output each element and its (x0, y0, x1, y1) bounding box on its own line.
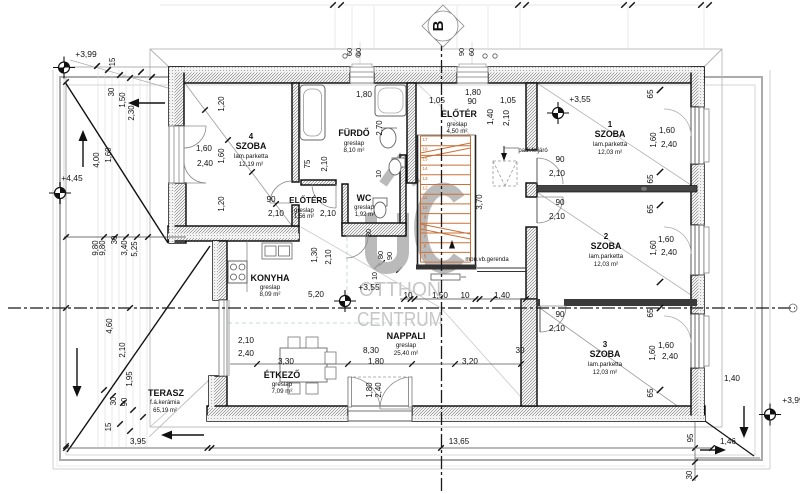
svg-text:2,10: 2,10 (549, 212, 565, 221)
svg-text:12,03 m²: 12,03 m² (598, 149, 622, 156)
svg-text:3,70: 3,70 (475, 194, 484, 210)
svg-text:10: 10 (376, 170, 383, 178)
svg-text:1,56 m²: 1,56 m² (294, 214, 314, 220)
svg-text:1,50: 1,50 (118, 92, 127, 108)
svg-text:SZOBA: SZOBA (236, 141, 267, 151)
svg-text:greslap: greslap (344, 140, 365, 147)
svg-text:1,20: 1,20 (217, 196, 226, 212)
svg-text:15: 15 (422, 156, 428, 161)
svg-text:7: 7 (424, 234, 427, 239)
svg-text:12,03 m²: 12,03 m² (593, 369, 617, 376)
svg-text:2,40: 2,40 (662, 352, 678, 361)
svg-text:NAPPALI: NAPPALI (387, 331, 426, 341)
svg-text:1,05: 1,05 (500, 96, 516, 105)
svg-text:4,00: 4,00 (92, 152, 101, 168)
svg-text:1,46: 1,46 (720, 437, 736, 446)
svg-text:3,20: 3,20 (462, 357, 478, 366)
svg-text:1,05: 1,05 (429, 96, 445, 105)
svg-text:30: 30 (685, 470, 694, 479)
svg-text:lam.parketta: lam.parketta (589, 253, 624, 260)
svg-text:ELŐTÉR: ELŐTÉR (441, 108, 477, 119)
svg-text:30: 30 (110, 235, 119, 244)
svg-text:lam.parketta: lam.parketta (593, 141, 628, 148)
svg-text:60: 60 (467, 48, 476, 56)
svg-text:12,19 m²: 12,19 m² (239, 161, 263, 168)
svg-text:+3,99: +3,99 (75, 49, 97, 59)
svg-text:10: 10 (372, 272, 379, 280)
svg-text:2,10: 2,10 (320, 156, 329, 172)
svg-text:2,10: 2,10 (268, 209, 284, 218)
svg-text:2,40: 2,40 (661, 140, 677, 149)
svg-text:2,70: 2,70 (375, 120, 384, 136)
svg-text:11: 11 (423, 195, 428, 200)
svg-text:14: 14 (422, 166, 428, 171)
svg-text:4,50 m²: 4,50 m² (447, 128, 468, 135)
svg-text:SZOBA: SZOBA (595, 129, 626, 139)
svg-text:12: 12 (422, 186, 428, 191)
svg-text:15: 15 (108, 57, 117, 66)
svg-text:+3,55: +3,55 (569, 94, 591, 104)
svg-text:2,40: 2,40 (374, 382, 383, 398)
svg-text:90: 90 (266, 195, 276, 204)
svg-text:1,60: 1,60 (658, 341, 674, 350)
svg-text:3,40: 3,40 (120, 240, 129, 256)
svg-text:1,80: 1,80 (365, 382, 374, 398)
svg-text:2,30: 2,30 (127, 105, 136, 121)
svg-text:90: 90 (555, 310, 565, 319)
svg-text:30: 30 (364, 229, 373, 237)
svg-text:6: 6 (424, 244, 427, 249)
svg-text:ELŐTÉR5: ELŐTÉR5 (289, 194, 327, 205)
svg-text:1,80: 1,80 (356, 90, 372, 99)
svg-text:13,65: 13,65 (449, 437, 470, 446)
svg-text:65: 65 (646, 308, 655, 318)
svg-text:greslap: greslap (447, 121, 468, 128)
svg-text:2,40: 2,40 (661, 248, 677, 257)
svg-text:16: 16 (422, 147, 428, 152)
svg-text:FÜRDŐ: FÜRDŐ (338, 127, 369, 138)
svg-text:ÉTKEZŐ: ÉTKEZŐ (264, 369, 301, 380)
svg-text:60: 60 (345, 48, 354, 56)
svg-text:8: 8 (424, 224, 427, 229)
svg-text:9,80: 9,80 (98, 240, 107, 256)
svg-text:3,95: 3,95 (130, 437, 146, 446)
svg-text:10: 10 (422, 205, 428, 210)
svg-text:1,50: 1,50 (432, 291, 448, 300)
svg-text:1,40: 1,40 (494, 291, 510, 300)
svg-text:padl.feljáró: padl.feljáró (518, 148, 548, 154)
svg-text:2,10: 2,10 (549, 324, 565, 333)
svg-text:WC: WC (357, 193, 372, 203)
svg-text:CENTRUM: CENTRUM (357, 309, 443, 331)
svg-text:90: 90 (555, 155, 565, 164)
svg-text:1,60: 1,60 (649, 132, 658, 148)
svg-text:65: 65 (646, 204, 655, 214)
svg-text:1,60: 1,60 (196, 144, 212, 153)
svg-text:30: 30 (515, 346, 525, 355)
svg-text:65: 65 (646, 388, 655, 398)
svg-text:8,30: 8,30 (363, 346, 379, 355)
svg-text:lam.parketta: lam.parketta (234, 153, 269, 160)
svg-text:1,92 m²: 1,92 m² (355, 212, 375, 218)
svg-text:B: B (430, 20, 447, 31)
svg-text:7,09 m²: 7,09 m² (272, 388, 293, 395)
svg-text:+3,55: +3,55 (358, 282, 380, 292)
svg-text:2,10: 2,10 (238, 336, 254, 345)
svg-text:65: 65 (646, 89, 655, 99)
svg-text:1,80: 1,80 (465, 88, 481, 97)
svg-text:1,60: 1,60 (217, 148, 226, 164)
svg-text:5,20: 5,20 (308, 290, 324, 299)
svg-text:+3,99: +3,99 (782, 395, 800, 405)
svg-text:2,10: 2,10 (320, 209, 336, 218)
svg-text:8,10 m²: 8,10 m² (344, 147, 365, 154)
svg-text:65: 65 (646, 174, 655, 184)
svg-text:SZOBA: SZOBA (590, 349, 621, 359)
svg-text:9: 9 (424, 215, 427, 220)
svg-text:12,03 m²: 12,03 m² (594, 261, 618, 268)
svg-text:1,60: 1,60 (104, 147, 113, 163)
svg-text:+4,45: +4,45 (61, 173, 83, 183)
svg-text:2,10: 2,10 (549, 169, 565, 178)
svg-text:2,40: 2,40 (238, 349, 254, 358)
svg-text:5,25: 5,25 (130, 241, 139, 257)
svg-text:90: 90 (385, 252, 394, 260)
svg-text:13: 13 (422, 176, 428, 181)
svg-text:greslap: greslap (272, 381, 293, 388)
svg-text:30: 30 (107, 87, 116, 96)
svg-text:95: 95 (686, 433, 695, 442)
svg-text:greslap: greslap (396, 342, 417, 349)
svg-text:2,10: 2,10 (118, 342, 127, 358)
svg-text:1,40: 1,40 (724, 374, 740, 383)
svg-text:greslap: greslap (260, 284, 281, 291)
svg-text:2: 2 (604, 232, 609, 241)
svg-text:1,95: 1,95 (125, 371, 134, 387)
svg-text:90: 90 (467, 97, 477, 106)
svg-text:60: 60 (354, 48, 363, 56)
svg-text:5: 5 (424, 253, 427, 258)
svg-text:80: 80 (376, 251, 385, 259)
svg-text:17: 17 (422, 137, 428, 142)
svg-text:10: 10 (460, 291, 470, 300)
svg-text:1,80: 1,80 (368, 357, 384, 366)
svg-text:SZOBA: SZOBA (591, 241, 622, 251)
svg-text:90: 90 (555, 198, 565, 207)
svg-text:1,60: 1,60 (649, 240, 658, 256)
svg-text:1,30: 1,30 (310, 247, 319, 263)
svg-text:2,10: 2,10 (324, 249, 333, 265)
svg-text:mon.vb.gerenda: mon.vb.gerenda (465, 257, 509, 263)
svg-text:10: 10 (403, 291, 413, 300)
svg-text:75: 75 (303, 159, 312, 168)
svg-text:lam.parketta: lam.parketta (588, 361, 623, 368)
svg-text:1: 1 (608, 120, 613, 129)
svg-text:25,40 m²: 25,40 m² (394, 350, 418, 357)
svg-text:4,60: 4,60 (105, 318, 114, 334)
svg-text:30: 30 (109, 396, 118, 405)
svg-text:1,20: 1,20 (217, 96, 226, 112)
svg-text:1,60: 1,60 (648, 345, 657, 361)
svg-text:4: 4 (249, 132, 254, 141)
svg-text:f.á.kerámia: f.á.kerámia (150, 400, 180, 406)
svg-text:KONYHA: KONYHA (250, 273, 290, 283)
svg-text:65,19 m²: 65,19 m² (153, 408, 177, 414)
svg-text:TERASZ: TERASZ (148, 388, 185, 398)
svg-text:1,60: 1,60 (659, 126, 675, 135)
svg-text:15: 15 (104, 422, 113, 431)
svg-text:2,40: 2,40 (197, 159, 213, 168)
svg-text:1,40: 1,40 (486, 109, 495, 125)
svg-text:2,10: 2,10 (502, 110, 511, 126)
svg-text:1,60: 1,60 (658, 235, 674, 244)
svg-text:8,09 m²: 8,09 m² (260, 291, 281, 298)
svg-text:3,30: 3,30 (278, 357, 294, 366)
svg-text:greslap: greslap (354, 205, 374, 211)
svg-text:3: 3 (603, 340, 608, 349)
svg-text:90: 90 (457, 48, 466, 56)
